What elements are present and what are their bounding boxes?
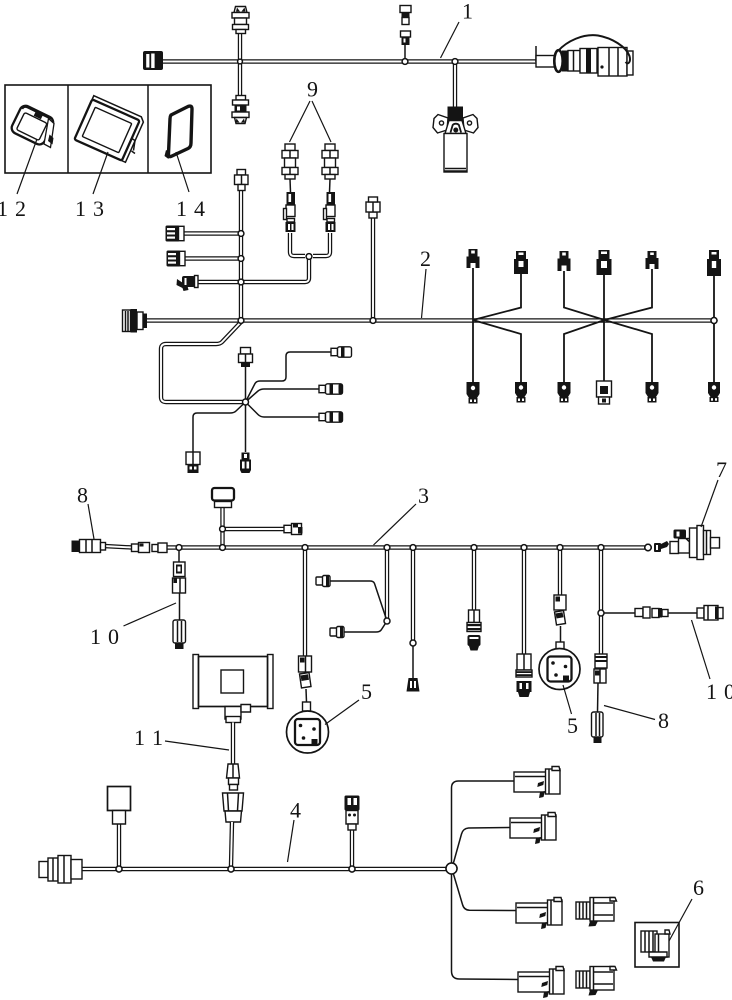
connector P1 left end of harness 1 <box>143 51 163 70</box>
round connector 5 right <box>539 649 580 690</box>
svg-text:6: 6 <box>693 875 704 900</box>
wire drop at x=560 <box>558 549 562 595</box>
wire branch A of bus <box>184 231 241 235</box>
wire T stem at x=222 <box>220 507 224 546</box>
label 8 left with leader <box>77 483 94 540</box>
connector bullet right <box>319 384 343 394</box>
wire branch 2 to relay 2 <box>453 828 510 865</box>
wire loop from harness 2 down to star junction <box>161 322 243 402</box>
node end of harness 2 <box>711 318 717 324</box>
connector bullet at y=581 <box>316 576 330 587</box>
wire harness 2 main run <box>130 318 714 322</box>
wire stem from controller 11 <box>231 723 235 765</box>
wire T branch right <box>225 527 284 531</box>
connector stack bottom x=474 <box>467 610 481 651</box>
relay part standalone 4 <box>576 967 617 996</box>
connector stem pieces <box>223 764 244 822</box>
svg-text:3: 3 <box>418 483 429 508</box>
wire branch 4 to relay 4 <box>452 874 519 980</box>
connector small tilted at end <box>654 541 669 552</box>
label 14 with leader <box>176 152 205 221</box>
svg-text:4: 4 <box>194 196 205 221</box>
connector below star <box>240 453 251 474</box>
connector inline pieces of item 10 right <box>635 607 668 618</box>
component 7 solenoid assembly <box>670 526 720 560</box>
star junction node <box>243 399 249 405</box>
connector 8 left end of harness 3 <box>72 540 106 553</box>
wire branch 3 to relay 3 <box>453 873 516 911</box>
node harness 4 at x=119 <box>116 866 122 872</box>
connector chain above round connector 5 right <box>554 595 566 650</box>
node harness 3 at x=179 <box>176 545 181 550</box>
connector star up <box>239 348 253 368</box>
connector above x=119 <box>108 787 131 825</box>
wire drop from connector P4 to harness 1 <box>404 45 406 61</box>
svg-text:8: 8 <box>658 708 669 733</box>
svg-text:7: 7 <box>716 457 727 482</box>
label 11 with leader <box>134 725 229 750</box>
label 8 right with leader <box>604 706 669 734</box>
connector stack bottom x=524 <box>516 654 532 697</box>
item 12 small display <box>10 104 56 148</box>
connector stack 9 left <box>282 144 298 232</box>
connector P3 bottom of cross <box>232 96 249 124</box>
svg-text:3: 3 <box>93 196 104 221</box>
node at bottom of x=413 drop <box>410 640 416 646</box>
nodes overlay <box>116 59 717 874</box>
connector down row 3 <box>558 382 571 403</box>
wire from stack 9 pair merging to node <box>290 233 330 256</box>
wire thin below node <box>412 645 414 678</box>
wire star lower-right to bullet <box>246 402 320 417</box>
wire thin to end connector 8 right <box>597 683 600 712</box>
connector inline piece 2 <box>152 543 167 553</box>
wire from merge node down and left to bus <box>196 259 309 282</box>
svg-text:2: 2 <box>420 246 431 271</box>
connector cylinder right end item 10 <box>697 606 723 621</box>
item 13 display <box>74 96 145 163</box>
connector down row 1 <box>467 382 480 404</box>
svg-text:4: 4 <box>290 798 301 823</box>
wire riser at x=352 <box>350 830 354 867</box>
controller 11 module <box>193 655 273 723</box>
relay part standalone 3 <box>576 898 617 927</box>
connector stack 9 right <box>322 144 338 232</box>
wire drop connector above harness 2 at x=373 <box>371 218 375 319</box>
wire drop at x=601 with node <box>599 549 603 654</box>
node at x=373 <box>370 318 375 323</box>
item 6 relay part <box>641 930 670 962</box>
connector right of T branch <box>284 524 303 535</box>
wire branch 1 to relay 1 <box>452 781 515 863</box>
wire stem lower part <box>231 822 232 866</box>
connector bullet at y=632 <box>330 627 344 638</box>
svg-text:8: 8 <box>77 483 88 508</box>
svg-text:1: 1 <box>90 624 101 649</box>
label 12 with leader <box>0 139 37 221</box>
svg-text:1: 1 <box>0 196 8 221</box>
wire star right to bullet <box>246 389 320 402</box>
parts box frame <box>5 85 211 173</box>
node branch B <box>238 256 243 261</box>
connector top of bus <box>235 170 249 191</box>
svg-text:5: 5 <box>361 679 372 704</box>
wire star lower-left <box>193 402 246 452</box>
node branch A <box>238 231 243 236</box>
item 6 box <box>635 923 679 968</box>
connector black plug bottom x=413 <box>407 678 420 692</box>
label 10 left with leader <box>90 603 176 649</box>
connector end item 8 right <box>592 712 604 743</box>
wire harness 1 main run <box>162 59 536 63</box>
label 6 with leader <box>669 875 704 941</box>
connector down row 4 white <box>597 381 612 404</box>
node on T stem <box>220 526 225 531</box>
wire drop at x=413 <box>411 549 415 641</box>
node harness 4 at x=352 <box>349 866 355 872</box>
connector up row 2 <box>514 251 528 274</box>
node merge of item 9 wires <box>306 254 311 259</box>
node harness 3 at x=222 <box>220 545 225 550</box>
wires at end node x=714 <box>713 276 715 382</box>
connector up row 1 <box>467 249 480 268</box>
wire drop at x=474 <box>472 549 476 610</box>
label 5 right with leader <box>563 685 578 738</box>
connector P5 big right end of harness 1 <box>536 35 633 76</box>
wire from node to bullet upper (via corner) <box>330 581 387 621</box>
svg-text:9: 9 <box>307 77 318 102</box>
wire branch right from node to inline connector 10 <box>603 612 697 614</box>
relay connector 1 <box>514 767 560 799</box>
svg-text:0: 0 <box>724 679 732 704</box>
wire drop at x=387 with node <box>385 549 389 619</box>
power socket component with wings <box>433 107 478 173</box>
wire bus vertical of harness 2 <box>239 190 243 319</box>
node junction at x=455 <box>452 59 457 64</box>
label 5 left with leader <box>325 679 372 725</box>
node end of harness 3 <box>645 544 651 550</box>
connector C small plug <box>177 276 199 292</box>
wire star up <box>245 366 247 402</box>
connector above harness 2 at x=373 <box>366 197 380 218</box>
connector bullet lower-right <box>319 412 343 422</box>
wire vertical cross at x=240 <box>238 33 242 95</box>
svg-text:1: 1 <box>75 196 86 221</box>
svg-text:5: 5 <box>567 713 578 738</box>
connector up row 5 <box>646 251 659 269</box>
node on harness 1 at x=405 <box>402 59 407 64</box>
connector left end of harness 2 <box>123 309 148 333</box>
node harness 3 at x=305 <box>302 545 307 550</box>
connector top of T <box>212 488 234 508</box>
wire riser at x=119 <box>117 824 121 867</box>
wire star upper-right to bullet <box>246 352 332 402</box>
connector down row 6 <box>708 382 720 402</box>
connector up row 3 <box>558 251 571 271</box>
connector lower-left of star <box>186 452 200 473</box>
wire branch B of bus <box>185 256 241 260</box>
label 2 with leader <box>420 246 431 318</box>
label 13 with leader <box>75 152 108 221</box>
connector A ribbed plug <box>166 226 185 242</box>
fan junction 1 wires <box>473 268 521 382</box>
item 14 gasket <box>165 106 193 159</box>
node branch C on bus <box>238 279 243 284</box>
wire from node to bullet lower <box>344 621 387 632</box>
label 9 with two leaders <box>290 77 332 143</box>
connector down row 2 <box>515 382 527 403</box>
wire drop to power socket <box>453 63 457 108</box>
label 1 with leader <box>441 0 474 58</box>
connector end item 10 left <box>173 620 186 649</box>
label 3 with leader <box>374 483 430 545</box>
connector P2 top of cross <box>232 7 249 34</box>
svg-text:1: 1 <box>462 0 473 24</box>
label 10 right with leader <box>692 620 732 704</box>
connector up row 4 <box>597 250 612 275</box>
connector chain above round connector 5 left <box>299 656 312 711</box>
node harness 2 at bus <box>238 318 243 323</box>
connector stack below node x=601 <box>594 654 607 683</box>
connector down row 5 <box>646 382 659 403</box>
wire star down <box>245 402 247 452</box>
connector inline piece 1 <box>132 543 150 553</box>
wire drop item 10 left at x=179 <box>178 549 181 620</box>
wire harness 4 main run <box>81 867 446 871</box>
connector P4 small stack above harness 1 <box>400 6 411 46</box>
node harness 4 at x=231 stem of controller <box>228 866 234 872</box>
svg-text:1: 1 <box>706 679 717 704</box>
tick mark before connector housing <box>535 46 537 62</box>
svg-text:1: 1 <box>176 196 187 221</box>
connector up row 6 <box>707 250 721 276</box>
round connector 5 left <box>287 711 329 753</box>
label 7 with leader <box>701 457 727 527</box>
wire drop at x=524 <box>522 549 526 654</box>
relay connector 4 <box>518 967 564 999</box>
connector stack item 10 left <box>173 562 186 593</box>
svg-text:2: 2 <box>15 196 26 221</box>
junction circle harness 4 right <box>446 863 457 874</box>
fan junction 2 wires <box>564 269 652 382</box>
connector B ribbed plug <box>167 251 186 267</box>
svg-text:0: 0 <box>108 624 119 649</box>
svg-text:1: 1 <box>152 725 163 750</box>
label 4 with leader <box>288 798 302 863</box>
connector bullet upper-right <box>331 347 352 357</box>
connector above x=352 <box>345 796 360 831</box>
svg-text:1: 1 <box>134 725 145 750</box>
relay connector 2 <box>510 813 556 845</box>
wire drop at x=305 <box>303 549 307 656</box>
wire harness 3 main run <box>104 546 648 548</box>
connector left end of harness 4 <box>39 856 82 884</box>
relay connector 3 <box>516 898 562 930</box>
